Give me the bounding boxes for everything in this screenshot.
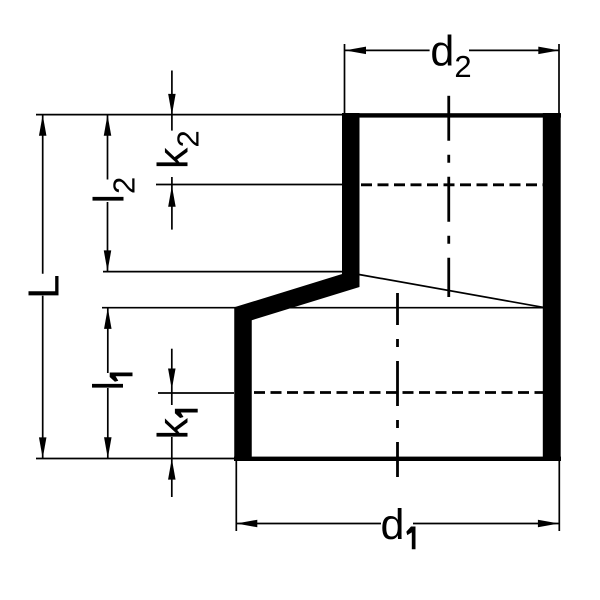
label d1 (381, 501, 416, 550)
svg-text:k: k (150, 418, 198, 440)
svg-text:d: d (381, 501, 405, 549)
dimension L (lines and arrows) (39, 115, 47, 459)
inner cone edge of reducer (359, 275, 543, 308)
pipe bottom end face (234, 457, 561, 461)
svg-text:L: L (20, 275, 69, 299)
extension line, upper transition shoulder (for l2) (103, 271, 342, 273)
extension line, bottom outer edge (for L, l1, k1) (36, 458, 234, 460)
pipe wall right (thick section) (543, 113, 561, 461)
pipe top end face (342, 113, 561, 117)
extension line, top outer edge (for L, l2, k2) (36, 114, 342, 116)
extension line d1 right (558, 461, 560, 531)
extension line d2 right (558, 44, 560, 113)
dimension l2 (lines and arrows) (104, 115, 112, 272)
centerline of upper pipe (dash-dot) (447, 96, 450, 297)
dimension d1 (lines and arrows) (236, 520, 559, 528)
centerline of lower pipe (dash-dot) (396, 293, 399, 477)
dimension d2 (lines and arrows) (345, 47, 559, 55)
dimension k1 (lines and arrows) (168, 349, 176, 497)
label k1 (150, 409, 198, 440)
pipe wall left with reducer transition (thick section) (243, 113, 351, 461)
extension line d2 left (344, 44, 346, 113)
hidden line, lower socket depth (dashed) (254, 391, 543, 394)
label l1 (85, 373, 133, 391)
svg-text:l: l (85, 381, 133, 391)
extension line d1 left (235, 461, 237, 531)
dimension k2 (lines and arrows) (168, 71, 176, 230)
shoulder line, lower transition level (for l1) (102, 307, 543, 309)
hidden line, upper socket depth (dashed) (361, 183, 543, 186)
extension line, upper socket depth (for k2) (156, 184, 342, 186)
dimension l1 (lines and arrows) (104, 308, 112, 458)
extension line, lower socket depth (for k1) (158, 392, 234, 394)
